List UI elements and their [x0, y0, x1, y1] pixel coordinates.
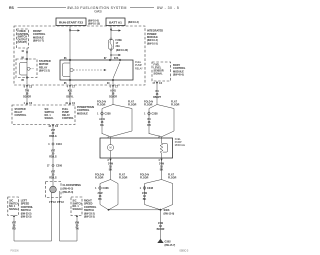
wire BATT A1 feed — [110, 26, 121, 39]
svg-text:20A: 20A — [116, 45, 121, 48]
svg-text:(START): (START) — [18, 41, 28, 44]
svg-text:SIGNAL: SIGNAL — [45, 117, 55, 120]
svg-text:(8W-45-3): (8W-45-3) — [63, 191, 74, 194]
fuel pump relay box — [60, 60, 143, 80]
svg-text:C200: C200 — [56, 165, 63, 168]
svg-text:C338: C338 — [103, 187, 110, 190]
svg-text:DG/OR: DG/OR — [109, 96, 117, 99]
svg-text:DB: DB — [147, 124, 151, 127]
wire fuel level sensor signal — [152, 81, 162, 105]
fuel pump relay coil — [63, 60, 107, 80]
svg-text:BK: BK — [143, 198, 147, 201]
starter motor relay label — [39, 60, 51, 73]
wire left U to left switch — [12, 198, 52, 242]
wire to clockspring — [49, 168, 57, 186]
svg-text:C338: C338 — [105, 113, 112, 116]
svg-text:TN: TN — [75, 228, 78, 231]
wire right U to right switch — [60, 198, 80, 242]
svg-text:FLOOR: FLOOR — [144, 103, 153, 106]
svg-text:(8W-33-3): (8W-33-3) — [84, 216, 95, 219]
svg-text:(8W-45-6): (8W-45-6) — [173, 74, 184, 77]
svg-text:MODULE: MODULE — [77, 112, 88, 115]
fuse 17 20A — [108, 38, 128, 52]
fuel pump module box — [100, 138, 185, 158]
connector C110 — [48, 142, 62, 146]
svg-text:RS: RS — [9, 6, 15, 10]
svg-text:SIGNAL: SIGNAL — [154, 73, 164, 76]
wire to ground — [157, 210, 165, 239]
wire fuse to relay — [110, 51, 121, 60]
wire fuel pump relay control to PCM — [65, 80, 75, 105]
powertrain control module label — [77, 106, 94, 115]
svg-text:FLOOR: FLOOR — [128, 103, 137, 106]
svg-text:RELAY: RELAY — [135, 67, 143, 70]
wire pump ground — [107, 158, 113, 180]
bottom-right option split — [140, 174, 177, 210]
wire F23 feed — [69, 26, 80, 61]
svg-text:BK: BK — [109, 169, 113, 172]
svg-text:PS0306: PS0306 — [11, 251, 20, 253]
splice S306 — [160, 209, 175, 216]
svg-text:DG/OR: DG/OR — [23, 96, 31, 99]
svg-text:BK/OR: BK/OR — [157, 228, 165, 231]
svg-text:RD/LG: RD/LG — [49, 156, 57, 159]
svg-text:(8W-15-6): (8W-15-6) — [164, 213, 175, 216]
svg-text:CONTROL: CONTROL — [62, 117, 74, 120]
svg-text:RD/LG: RD/LG — [49, 135, 57, 138]
svg-text:RD: RD — [12, 228, 16, 231]
svg-text:(8W-21-2): (8W-21-2) — [39, 70, 50, 73]
body control module dashed box — [152, 62, 171, 81]
svg-text:BK: BK — [98, 198, 102, 201]
integrated power module label — [147, 30, 163, 46]
svg-text:(8W-10-7): (8W-10-7) — [33, 40, 44, 43]
body control module label — [173, 64, 186, 77]
svg-text:RUN-START F23: RUN-START F23 — [59, 21, 83, 25]
svg-text:FLOOR: FLOOR — [140, 176, 149, 179]
svg-text:SIGNAL: SIGNAL — [9, 208, 19, 211]
left speed control switch — [8, 197, 34, 219]
svg-text:FLOOR: FLOOR — [168, 176, 177, 179]
wire fuel pump relay output — [109, 80, 119, 105]
integrated power module dashed box — [14, 26, 145, 85]
powertrain control module dashed box — [12, 105, 75, 125]
svg-text:C110: C110 — [56, 143, 62, 146]
front control module label — [33, 30, 46, 43]
fuse block BATT A1 — [106, 18, 139, 26]
clockspring — [46, 182, 82, 198]
connector C338 right — [144, 111, 158, 127]
fuse block RUN-START F23 — [56, 18, 100, 26]
svg-text:GAS: GAS — [94, 10, 102, 14]
wire sensor return — [158, 158, 164, 180]
svg-text:RD/LG: RD/LG — [49, 177, 57, 180]
svg-text:DB/WT: DB/WT — [153, 96, 161, 99]
svg-text:FLOOR: FLOOR — [97, 103, 106, 106]
svg-text:87A: 87A — [114, 57, 119, 60]
connector C200 — [47, 163, 63, 167]
svg-text:C338: C338 — [152, 113, 159, 116]
svg-text:(8W-10-15): (8W-10-15) — [88, 23, 100, 26]
fuel pump motor — [107, 136, 113, 158]
wire S/C switch signal from PCM — [48, 125, 58, 142]
bottom-left option split — [95, 174, 128, 211]
top-right option split — [144, 101, 180, 139]
svg-text:M: M — [110, 147, 112, 150]
front control module dashed box — [17, 29, 29, 48]
connector C338 bottom-right — [140, 186, 154, 201]
svg-text:0585C-5: 0585C-5 — [180, 251, 190, 253]
svg-text:BATT A1: BATT A1 — [109, 21, 122, 25]
svg-text:SIGNAL: SIGNAL — [73, 208, 83, 211]
fuel pump relay contact — [64, 57, 121, 85]
fuel level sensor — [158, 136, 167, 158]
wire to C200 — [49, 146, 57, 163]
svg-text:DB/YL: DB/YL — [66, 96, 74, 99]
clockspring lower pins — [49, 201, 65, 204]
connector C338 left — [97, 111, 111, 127]
svg-text:C338: C338 — [147, 187, 154, 190]
svg-text:8W - 30 - 5: 8W - 30 - 5 — [157, 6, 179, 10]
svg-text:(8W-15-7): (8W-15-7) — [165, 244, 176, 247]
starter motor relay dashed box — [16, 57, 37, 83]
svg-text:FLOOR: FLOOR — [95, 176, 104, 179]
svg-text:(8W-10-2): (8W-10-2) — [128, 21, 139, 24]
svg-text:DG: DG — [100, 124, 104, 127]
svg-text:CONTROL: CONTROL — [15, 114, 27, 117]
top-left option split — [97, 101, 137, 139]
svg-text:FLOOR: FLOOR — [171, 103, 180, 106]
ground bus wire — [109, 209, 161, 211]
svg-text:BK: BK — [160, 169, 164, 172]
wire FCM to starter relay — [21, 48, 28, 59]
svg-text:MODULE: MODULE — [175, 144, 186, 147]
ground G302 — [157, 239, 175, 247]
svg-text:(8W-10-20): (8W-10-20) — [116, 49, 128, 52]
connector C338 bottom-left — [95, 186, 109, 201]
svg-text:(8W-10-5): (8W-10-5) — [147, 42, 158, 45]
svg-text:(8W-33-3): (8W-33-3) — [21, 216, 32, 219]
right speed control switch — [71, 197, 97, 219]
wire starter relay control to PCM — [23, 78, 33, 106]
svg-text:FLOOR: FLOOR — [119, 176, 128, 179]
